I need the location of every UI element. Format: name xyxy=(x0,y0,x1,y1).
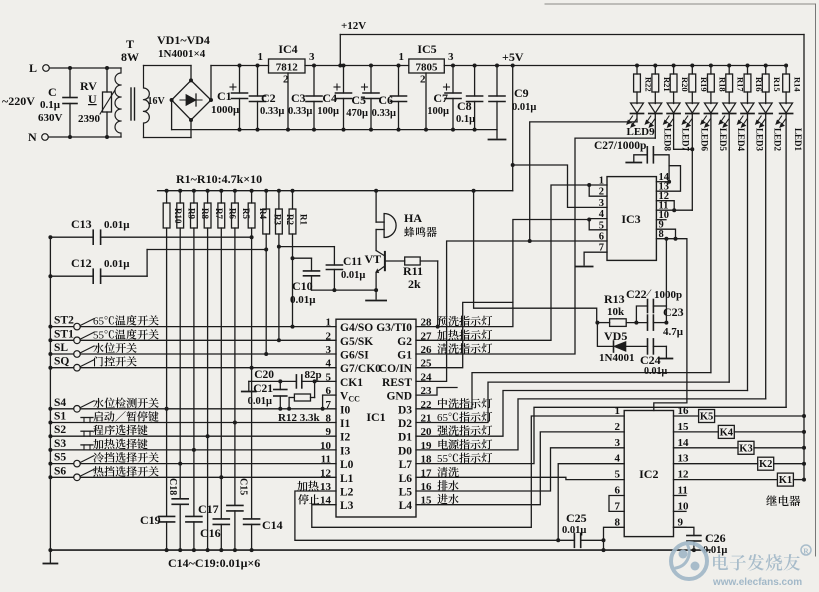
svg-text:IC1: IC1 xyxy=(366,410,385,424)
svg-text:L4: L4 xyxy=(399,500,413,512)
svg-text:100μ: 100μ xyxy=(317,106,339,117)
svg-text:G6/SI: G6/SI xyxy=(340,350,369,362)
svg-text:LED9: LED9 xyxy=(627,126,656,138)
svg-text:CO/IN: CO/IN xyxy=(379,363,413,375)
svg-text:L1: L1 xyxy=(340,473,354,485)
svg-text:+5V: +5V xyxy=(502,50,524,64)
svg-text:1000p: 1000p xyxy=(654,289,682,301)
svg-text:C19: C19 xyxy=(140,513,161,527)
svg-text:1: 1 xyxy=(399,51,405,63)
svg-text:C7: C7 xyxy=(433,91,448,105)
svg-text:电子发烧友: 电子发烧友 xyxy=(711,550,801,575)
svg-text:S4: S4 xyxy=(54,397,66,409)
svg-text:C3: C3 xyxy=(291,91,306,105)
svg-text:11: 11 xyxy=(678,485,688,497)
svg-text:C12: C12 xyxy=(71,256,92,270)
svg-text:2: 2 xyxy=(615,421,621,433)
svg-text:G1: G1 xyxy=(397,350,412,362)
svg-text:S5: S5 xyxy=(54,452,66,464)
svg-text:R5: R5 xyxy=(241,208,251,219)
svg-text:0.01μ: 0.01μ xyxy=(290,294,316,306)
svg-text:470μ: 470μ xyxy=(346,108,368,119)
svg-text:8: 8 xyxy=(615,516,621,528)
svg-text:I3: I3 xyxy=(340,445,350,457)
svg-text:4: 4 xyxy=(599,209,605,220)
svg-text:1: 1 xyxy=(599,176,604,187)
svg-text:S2: S2 xyxy=(54,424,66,436)
svg-text:15: 15 xyxy=(678,421,690,433)
svg-text:VD5: VD5 xyxy=(604,329,627,343)
svg-text:1: 1 xyxy=(258,51,264,63)
svg-text:LED3: LED3 xyxy=(755,128,765,152)
svg-text:C11: C11 xyxy=(343,256,362,268)
svg-text:C24: C24 xyxy=(640,353,661,367)
svg-text:9: 9 xyxy=(678,516,684,528)
svg-text:C22: C22 xyxy=(626,287,647,301)
svg-text:SL: SL xyxy=(54,342,68,354)
svg-text:VT: VT xyxy=(365,252,382,266)
svg-text:0.01μ: 0.01μ xyxy=(562,525,586,536)
svg-text:L7: L7 xyxy=(399,459,413,471)
svg-text:+12V: +12V xyxy=(341,20,366,32)
svg-text:C16: C16 xyxy=(200,526,221,540)
svg-text:LED1: LED1 xyxy=(793,128,803,152)
svg-text:13: 13 xyxy=(678,453,690,465)
svg-text:C14: C14 xyxy=(262,518,283,532)
svg-text:0.01μ: 0.01μ xyxy=(644,366,668,377)
svg-text:G3/TI0: G3/TI0 xyxy=(376,322,412,334)
svg-text:IC4: IC4 xyxy=(278,42,297,56)
svg-text:R: R xyxy=(803,546,809,557)
svg-text:C15: C15 xyxy=(238,478,249,495)
svg-text:1N4001: 1N4001 xyxy=(599,352,634,364)
svg-text:R3: R3 xyxy=(272,214,282,225)
svg-text:L5: L5 xyxy=(399,487,413,499)
svg-text:C6: C6 xyxy=(378,93,393,107)
svg-text:L6: L6 xyxy=(399,473,413,485)
svg-text:IC2: IC2 xyxy=(639,467,658,481)
svg-text:K5: K5 xyxy=(700,412,713,423)
svg-text:L3: L3 xyxy=(340,500,354,512)
svg-text:C14~C19:0.01μ×6: C14~C19:0.01μ×6 xyxy=(168,556,260,570)
svg-text:C20: C20 xyxy=(254,369,274,381)
svg-text:I1: I1 xyxy=(340,418,350,430)
svg-text:U: U xyxy=(88,92,97,106)
svg-text:10k: 10k xyxy=(607,306,625,318)
svg-text:D0: D0 xyxy=(398,445,412,457)
svg-text:R11: R11 xyxy=(403,264,423,278)
svg-text:0.01μ: 0.01μ xyxy=(341,270,365,281)
svg-text:GND: GND xyxy=(386,391,412,403)
svg-text:2390: 2390 xyxy=(78,113,101,125)
svg-text:I2: I2 xyxy=(340,432,350,444)
svg-text:C10: C10 xyxy=(292,279,313,293)
svg-text:0.01μ: 0.01μ xyxy=(104,258,130,270)
svg-text:C21: C21 xyxy=(253,383,273,395)
svg-text:LED6: LED6 xyxy=(699,128,709,152)
svg-text:R8: R8 xyxy=(200,208,210,219)
svg-text:R10: R10 xyxy=(173,208,183,224)
svg-text:C5: C5 xyxy=(351,93,366,107)
svg-text:C13: C13 xyxy=(71,217,92,231)
svg-text:IC3: IC3 xyxy=(621,212,640,226)
svg-text:K3: K3 xyxy=(739,443,752,454)
svg-text:C26: C26 xyxy=(705,531,726,545)
svg-text:LED8: LED8 xyxy=(662,128,672,152)
svg-text:R2: R2 xyxy=(285,214,295,225)
svg-text:8W: 8W xyxy=(121,50,139,64)
svg-text:~220V: ~220V xyxy=(2,94,35,108)
svg-text:10: 10 xyxy=(678,500,690,512)
svg-text:3: 3 xyxy=(615,437,621,449)
svg-text:C8: C8 xyxy=(457,99,472,113)
svg-text:C18: C18 xyxy=(167,478,178,495)
svg-text:0.33μ: 0.33μ xyxy=(372,108,396,119)
svg-text:R9: R9 xyxy=(186,208,196,219)
svg-text:RV: RV xyxy=(80,79,97,93)
svg-text:7812: 7812 xyxy=(276,62,299,74)
svg-text:HA: HA xyxy=(404,211,422,225)
svg-text:5: 5 xyxy=(599,220,604,231)
svg-text:G5/SK: G5/SK xyxy=(340,336,373,348)
svg-text:R13: R13 xyxy=(604,292,625,306)
svg-text:100μ: 100μ xyxy=(427,106,449,117)
svg-text:0.33μ: 0.33μ xyxy=(260,106,284,117)
svg-text:R1~R10:4.7k×10: R1~R10:4.7k×10 xyxy=(176,172,262,186)
svg-text:2: 2 xyxy=(599,187,604,198)
svg-text:0.1μ: 0.1μ xyxy=(40,99,61,111)
svg-text:ST2: ST2 xyxy=(54,315,74,327)
svg-text:VD1~VD4: VD1~VD4 xyxy=(157,33,210,47)
svg-text:C9: C9 xyxy=(514,86,529,100)
svg-text:1N4001×4: 1N4001×4 xyxy=(158,48,206,60)
svg-text:6: 6 xyxy=(615,485,621,497)
svg-text:2k: 2k xyxy=(408,277,421,291)
svg-text:2: 2 xyxy=(420,74,426,86)
svg-text:I0: I0 xyxy=(340,404,350,416)
svg-text:L2: L2 xyxy=(340,487,354,499)
svg-text:C17: C17 xyxy=(198,502,219,516)
svg-text:0.01μ: 0.01μ xyxy=(248,396,272,407)
svg-text:蜂鸣器: 蜂鸣器 xyxy=(404,224,437,240)
svg-text:630V: 630V xyxy=(38,112,63,124)
svg-text:1000μ: 1000μ xyxy=(211,104,240,116)
svg-text:1: 1 xyxy=(615,405,621,417)
svg-text:S1: S1 xyxy=(54,411,66,423)
svg-text:LED2: LED2 xyxy=(773,128,783,152)
svg-text:T: T xyxy=(126,37,134,51)
svg-text:L0: L0 xyxy=(340,459,354,471)
svg-text:VCC: VCC xyxy=(340,391,360,404)
svg-text:L: L xyxy=(29,61,37,75)
svg-text:REST: REST xyxy=(382,377,412,389)
svg-text:16V: 16V xyxy=(148,96,166,107)
svg-text:G2: G2 xyxy=(397,336,412,348)
svg-text:∕: ∕ xyxy=(646,288,652,299)
svg-text:R1: R1 xyxy=(299,214,309,225)
svg-text:0.33μ: 0.33μ xyxy=(288,106,312,117)
svg-text:C4: C4 xyxy=(322,91,337,105)
svg-text:R7: R7 xyxy=(214,208,224,219)
svg-text:82p: 82p xyxy=(305,369,322,381)
svg-text:IC5: IC5 xyxy=(417,42,436,56)
svg-text:D3: D3 xyxy=(398,404,412,416)
svg-text:4: 4 xyxy=(615,453,621,465)
svg-text:16: 16 xyxy=(678,405,690,417)
svg-text:7: 7 xyxy=(615,500,621,512)
svg-text:继电器: 继电器 xyxy=(766,493,801,509)
svg-text:5: 5 xyxy=(615,469,621,481)
svg-text:14: 14 xyxy=(678,437,690,449)
svg-text:SQ: SQ xyxy=(54,356,69,368)
svg-text:3: 3 xyxy=(448,51,454,63)
svg-text:LED7: LED7 xyxy=(681,128,691,152)
svg-text:N: N xyxy=(28,130,37,144)
svg-text:R12 3.3k: R12 3.3k xyxy=(278,412,320,424)
svg-text:LED4: LED4 xyxy=(736,128,746,152)
svg-text:0.1μ: 0.1μ xyxy=(456,114,475,125)
svg-text:K2: K2 xyxy=(759,459,772,470)
svg-text:R14: R14 xyxy=(793,77,803,92)
svg-text:3: 3 xyxy=(309,51,315,63)
svg-text:G4/SO: G4/SO xyxy=(340,322,373,334)
svg-text:D2: D2 xyxy=(398,418,412,430)
svg-text:ST1: ST1 xyxy=(54,328,74,340)
svg-text:C27/1000p: C27/1000p xyxy=(594,140,646,152)
svg-text:12: 12 xyxy=(678,469,690,481)
svg-text:LED5: LED5 xyxy=(718,128,728,152)
svg-text:www.elecfans.com: www.elecfans.com xyxy=(712,577,802,588)
svg-text:6: 6 xyxy=(599,232,604,243)
svg-text:R6: R6 xyxy=(228,208,238,219)
svg-text:7805: 7805 xyxy=(416,62,439,74)
svg-text:0.01μ: 0.01μ xyxy=(104,219,130,231)
svg-text:4.7μ: 4.7μ xyxy=(663,326,684,338)
svg-text:S3: S3 xyxy=(54,438,66,450)
svg-text:K1: K1 xyxy=(779,475,792,486)
svg-text:CK1: CK1 xyxy=(340,377,363,389)
svg-text:K4: K4 xyxy=(720,427,734,438)
svg-text:D1: D1 xyxy=(398,432,412,444)
svg-text:C2: C2 xyxy=(261,91,276,105)
svg-text:C1: C1 xyxy=(217,89,232,103)
svg-text:R15: R15 xyxy=(772,77,782,92)
svg-text:C: C xyxy=(48,85,57,99)
svg-text:0.01μ: 0.01μ xyxy=(512,102,536,113)
svg-text:G7/CK0: G7/CK0 xyxy=(340,363,381,375)
svg-text:C25: C25 xyxy=(566,511,587,525)
svg-text:S6: S6 xyxy=(54,465,66,477)
